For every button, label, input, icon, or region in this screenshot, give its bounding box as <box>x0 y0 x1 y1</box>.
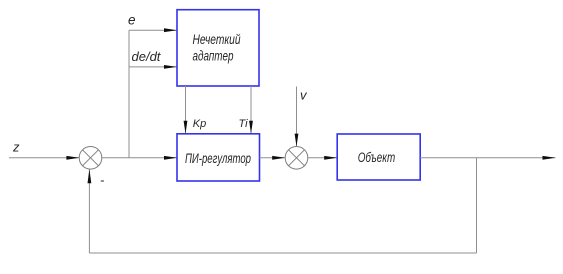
wire PI to S2 <box>260 156 286 160</box>
svg-text:e: e <box>128 12 136 27</box>
summing junction S1 <box>79 147 102 170</box>
svg-text:адаптер: адаптер <box>193 47 234 63</box>
wire Kp adapter to PI <box>184 86 188 134</box>
svg-text:Нечеткий: Нечеткий <box>193 31 241 47</box>
wire feedback up segment to S1 <box>88 169 92 253</box>
svg-text:v: v <box>300 88 308 103</box>
wire output <box>420 156 555 160</box>
svg-text:z: z <box>12 140 20 155</box>
block PI controller U2 <box>177 134 260 181</box>
wire feedback down segment <box>476 158 478 253</box>
wire e input to adapter <box>129 28 177 32</box>
wire feedback bottom segment <box>89 252 476 254</box>
summing junction S2 <box>285 147 308 170</box>
svg-text:-: - <box>100 173 105 188</box>
wire v input to S2 <box>295 87 299 147</box>
wire Ti adapter to PI <box>249 86 253 134</box>
wire S1 to PI controller <box>102 156 177 160</box>
svg-text:ПИ-регулятор: ПИ-регулятор <box>185 150 251 166</box>
svg-text:Kp: Kp <box>193 118 206 130</box>
block plant U3 <box>337 134 420 180</box>
wire de/dt input to adapter <box>129 65 177 69</box>
wire z input <box>9 156 79 160</box>
wire S2 to plant <box>308 156 337 160</box>
svg-text:de/dt: de/dt <box>132 49 162 64</box>
wire vertical branch to adapter inputs <box>128 30 130 158</box>
svg-text:Объект: Объект <box>358 149 396 165</box>
svg-text:Ti: Ti <box>239 118 249 130</box>
block fuzzy adapter U1 <box>177 10 259 86</box>
